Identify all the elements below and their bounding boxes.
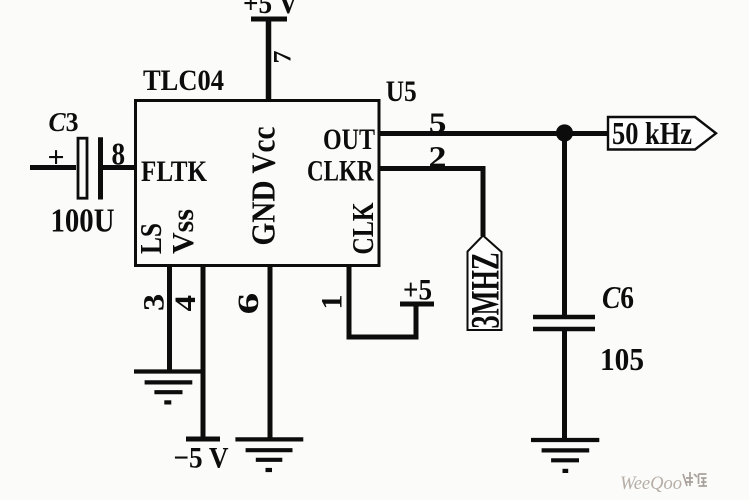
svg-text:3MHZ: 3MHZ xyxy=(463,253,508,329)
svg-text:FLTK: FLTK xyxy=(141,155,208,188)
svg-text:2: 2 xyxy=(429,140,447,174)
svg-text:8: 8 xyxy=(112,137,126,171)
svg-text:C3: C3 xyxy=(49,107,79,137)
svg-text:6: 6 xyxy=(232,293,265,315)
svg-text:TLC04: TLC04 xyxy=(143,64,224,97)
svg-text:CLKR: CLKR xyxy=(307,155,374,188)
svg-text:GND Vcc: GND Vcc xyxy=(245,127,282,246)
svg-text:50 kHz: 50 kHz xyxy=(612,115,692,151)
svg-text:CLK: CLK xyxy=(345,203,380,255)
svg-text:WeeQoo: WeeQoo xyxy=(620,473,682,494)
svg-text:C6: C6 xyxy=(602,279,634,315)
svg-text:+5 V: +5 V xyxy=(243,0,298,20)
svg-text:100U: 100U xyxy=(51,203,115,240)
svg-text:+5: +5 xyxy=(403,274,432,307)
svg-text:+: + xyxy=(48,141,65,174)
svg-text:1: 1 xyxy=(316,295,349,310)
svg-text:4: 4 xyxy=(168,295,201,312)
svg-text:OUT: OUT xyxy=(323,123,375,156)
svg-text:105: 105 xyxy=(600,341,644,377)
svg-text:3: 3 xyxy=(137,294,170,311)
svg-text:Vss: Vss xyxy=(165,209,200,254)
svg-text:U5: U5 xyxy=(386,75,417,108)
svg-text:7: 7 xyxy=(268,50,297,63)
svg-text:−5 V: −5 V xyxy=(174,442,229,475)
svg-text:LS: LS xyxy=(133,223,168,254)
svg-text:5: 5 xyxy=(429,107,447,139)
